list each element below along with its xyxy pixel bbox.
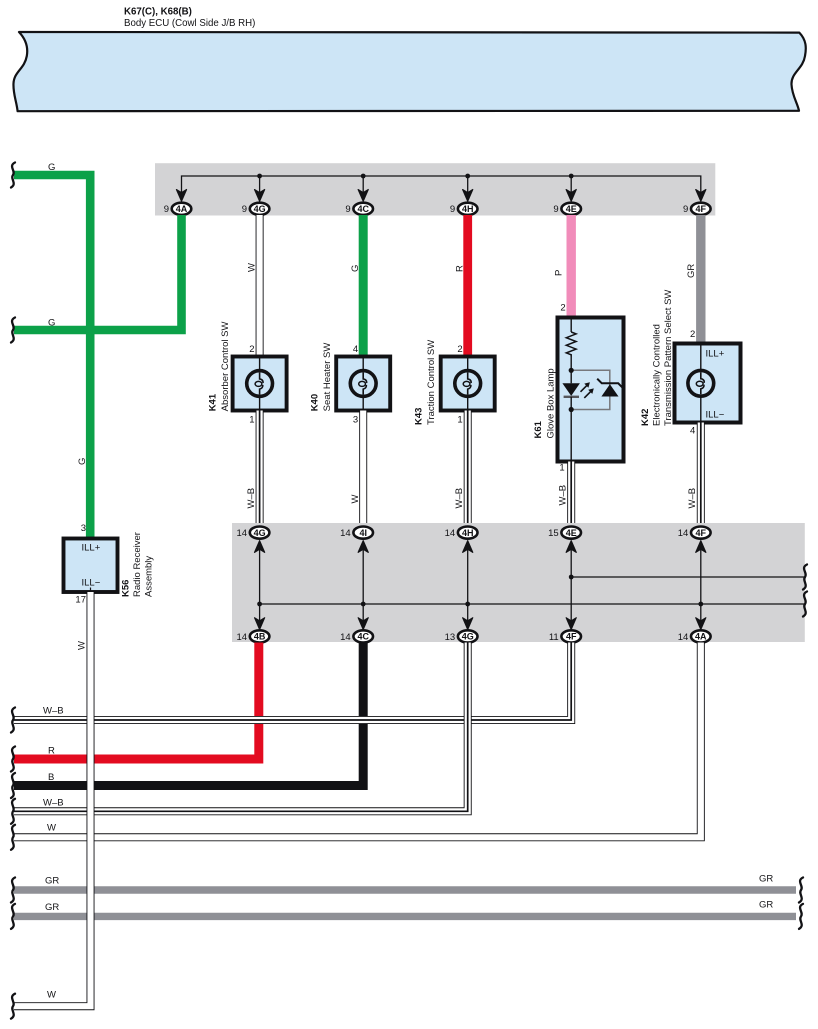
connector arrow into 4E (mid top row) — [566, 541, 576, 553]
svg-text:14: 14 — [678, 528, 689, 539]
svg-text:ILL−: ILL− — [82, 578, 101, 589]
radio receiver assembly K56 — [64, 539, 118, 593]
svg-text:4B: 4B — [254, 632, 266, 642]
svg-text:W: W — [77, 641, 88, 650]
svg-text:4: 4 — [690, 426, 695, 437]
junction dot top band col 4 — [569, 174, 574, 179]
lamp symbol in K43 — [455, 371, 481, 397]
connector oval 9 4C — [353, 203, 373, 215]
svg-text:K42: K42 — [640, 409, 651, 426]
wire W from K40 to 4I — [359, 411, 367, 528]
svg-text:1: 1 — [559, 463, 564, 474]
svg-text:Radio Receiver: Radio Receiver — [132, 532, 143, 597]
top band bus wire — [182, 176, 701, 195]
svg-text:4H: 4H — [462, 204, 474, 214]
svg-text:G: G — [350, 265, 361, 272]
svg-text:4C: 4C — [357, 204, 369, 214]
svg-text:9: 9 — [242, 204, 247, 215]
connector oval 14 4B — [250, 630, 270, 642]
connector oval 9 4A — [172, 203, 192, 215]
svg-text:W–B: W–B — [687, 488, 698, 509]
svg-text:9: 9 — [164, 204, 169, 215]
svg-text:Glove Box Lamp: Glove Box Lamp — [546, 368, 557, 438]
lamp symbol in K42 — [688, 370, 714, 396]
svg-text:4G: 4G — [254, 528, 266, 538]
connector arrow into 4E — [566, 190, 576, 202]
svg-text:2: 2 — [249, 344, 254, 355]
svg-text:K40: K40 — [310, 394, 321, 411]
svg-text:2: 2 — [560, 303, 565, 314]
svg-text:GR: GR — [686, 264, 697, 278]
connector oval 13 4G — [458, 630, 478, 642]
Body ECU banner (shield) — [13, 32, 805, 111]
svg-text:W–B: W–B — [43, 706, 64, 717]
junction dot top band col 1 — [257, 174, 262, 179]
connector oval 14 4A — [691, 630, 711, 642]
wire W from 4G to K41 — [256, 215, 264, 357]
svg-text:Traction Control SW: Traction Control SW — [426, 340, 437, 425]
svg-text:R: R — [454, 265, 465, 272]
connector arrow into 4G (mid bottom row) — [463, 618, 473, 630]
svg-text:4E: 4E — [566, 204, 577, 214]
connector arrow into 4A (mid bottom row) — [696, 618, 706, 630]
wire GR (lower) — [14, 913, 796, 920]
bus line to right (lower) — [260, 603, 804, 605]
wire W-B from K43 to 4H — [464, 411, 472, 528]
svg-text:14: 14 — [340, 528, 351, 539]
svg-text:K41: K41 — [208, 393, 219, 411]
svg-text:9: 9 — [683, 204, 688, 215]
svg-text:4G: 4G — [462, 632, 474, 642]
svg-text:ILL−: ILL− — [706, 410, 725, 421]
svg-text:2: 2 — [457, 344, 462, 355]
svg-text:GR: GR — [759, 900, 773, 911]
LED symbol in K61 — [562, 383, 580, 396]
wire W-B from 4G(13) to left — [14, 643, 468, 812]
switch K42 (Electronically Controlled Transmission Pattern Select SW) — [675, 344, 741, 423]
resistor inside K61 — [566, 332, 576, 357]
svg-text:W: W — [47, 990, 56, 1001]
wire G (top left) — [14, 175, 90, 539]
svg-text:GR: GR — [45, 902, 59, 913]
svg-text:K67(C), K68(B): K67(C), K68(B) — [124, 7, 192, 18]
junction dot below LED — [569, 407, 574, 412]
svg-text:W–B: W–B — [454, 488, 465, 509]
connector oval 9 4F — [691, 203, 711, 215]
wire W-B from K61 to 4E — [567, 462, 575, 528]
zener diode in K61 branch — [601, 384, 618, 396]
junction block band (top) — [155, 163, 715, 215]
bus line to right (upper) — [571, 576, 804, 578]
connector arrow into 4F — [696, 190, 706, 202]
svg-text:P: P — [554, 270, 565, 276]
svg-text:W: W — [246, 263, 257, 272]
svg-text:Assembly: Assembly — [143, 556, 154, 597]
connector arrow into 4C — [358, 190, 368, 202]
connector oval 14 4H — [458, 527, 478, 539]
wire GR (upper) — [14, 886, 796, 893]
svg-text:4H: 4H — [462, 528, 474, 538]
svg-text:GR: GR — [759, 874, 773, 885]
switch K41 (Absorber Control SW) — [233, 357, 287, 411]
wire G from 4C to K40 — [359, 215, 368, 357]
svg-text:17: 17 — [75, 595, 86, 606]
switch K40 (Seat Heater SW) — [336, 357, 390, 411]
svg-text:G: G — [77, 458, 88, 465]
wire W-B from 4F(11) to left — [14, 643, 571, 721]
svg-text:14: 14 — [678, 632, 689, 643]
wire R from 4B to left — [14, 643, 259, 760]
connector arrow into 4A — [176, 190, 186, 202]
wire R from 4H to K43 — [463, 215, 472, 357]
connector arrow into 4F (mid top row) — [696, 541, 706, 553]
wire W from K56 pin 17 down and to left — [14, 592, 91, 1006]
LED emission arrows — [581, 385, 588, 392]
svg-text:2: 2 — [690, 329, 695, 340]
lamp symbol in K40 — [350, 371, 376, 397]
svg-text:R: R — [48, 746, 55, 757]
junction block band (middle) — [232, 523, 805, 642]
connector oval 14 4I — [353, 527, 373, 539]
middle band bus wires — [259, 546, 261, 622]
svg-text:Electronically Controlled: Electronically Controlled — [652, 324, 663, 426]
svg-text:ILL+: ILL+ — [706, 349, 725, 360]
wire W-B from K42 to 4F — [697, 423, 705, 528]
svg-text:4C: 4C — [357, 632, 369, 642]
svg-text:14: 14 — [237, 528, 248, 539]
connector arrow into 4G (mid top row) — [255, 541, 265, 553]
connector oval 9 4H — [458, 203, 478, 215]
svg-text:G: G — [48, 318, 55, 329]
svg-text:1: 1 — [457, 414, 462, 425]
glove box lamp K61 — [558, 318, 624, 462]
connector oval 14 4C — [353, 630, 373, 642]
svg-text:4F: 4F — [566, 632, 577, 642]
connector oval 15 4E — [561, 527, 581, 539]
svg-text:1: 1 — [249, 414, 254, 425]
svg-text:W: W — [350, 495, 361, 504]
svg-text:4E: 4E — [566, 528, 577, 538]
wire G (second, from 4A) — [14, 215, 182, 330]
svg-text:4A: 4A — [176, 204, 188, 214]
svg-text:W–B: W–B — [557, 485, 568, 506]
svg-text:ILL+: ILL+ — [82, 543, 101, 554]
svg-text:W: W — [47, 823, 56, 834]
svg-text:4G: 4G — [254, 204, 266, 214]
wire GR from 4F to K42 — [696, 215, 705, 344]
svg-text:11: 11 — [549, 632, 559, 643]
svg-text:4I: 4I — [359, 528, 367, 538]
connector arrow into 4C (mid bottom row) — [358, 618, 368, 630]
svg-text:W–B: W–B — [43, 798, 64, 809]
svg-text:G: G — [48, 162, 55, 173]
svg-text:13: 13 — [445, 632, 456, 643]
connector arrow into 4I (mid top row) — [358, 541, 368, 553]
connector arrow into 4H — [463, 190, 473, 202]
svg-text:K43: K43 — [414, 408, 425, 425]
svg-text:4: 4 — [353, 344, 358, 355]
svg-text:4F: 4F — [696, 204, 707, 214]
svg-text:9: 9 — [345, 204, 350, 215]
connector arrow into 4G — [255, 190, 265, 202]
wire W from 4A(14) to left — [14, 643, 701, 838]
svg-text:4F: 4F — [696, 528, 707, 538]
connector oval 9 4G — [250, 203, 270, 215]
svg-text:Seat Heater SW: Seat Heater SW — [322, 343, 333, 412]
connector oval 14 4G — [250, 527, 270, 539]
svg-text:B: B — [48, 772, 54, 783]
svg-text:14: 14 — [445, 528, 456, 539]
connector oval 11 4F — [561, 630, 581, 642]
svg-text:15: 15 — [548, 528, 559, 539]
svg-text:14: 14 — [340, 632, 351, 643]
wire B from 4C to left — [14, 643, 363, 786]
branch wiring (gray) around LED/zener — [571, 370, 610, 409]
connector oval 9 4E — [561, 203, 581, 215]
connector arrow into 4F (mid bottom row) — [566, 618, 576, 630]
svg-text:GR: GR — [45, 876, 59, 887]
switch K43 (Traction Control SW) — [441, 357, 495, 411]
connector arrow into 4H (mid top row) — [463, 541, 473, 553]
svg-text:9: 9 — [553, 204, 558, 215]
junction dot top band col 2 — [361, 174, 366, 179]
connector arrow into 4B (mid bottom row) — [255, 618, 265, 630]
svg-text:Body ECU (Cowl Side J/B RH): Body ECU (Cowl Side J/B RH) — [124, 18, 255, 29]
svg-text:3: 3 — [81, 523, 86, 534]
svg-text:9: 9 — [450, 204, 455, 215]
svg-text:3: 3 — [353, 414, 358, 425]
wire P from 4E to K61 — [567, 215, 576, 318]
svg-text:W–B: W–B — [246, 488, 257, 509]
connector oval 14 4F — [691, 527, 711, 539]
svg-text:4A: 4A — [695, 632, 707, 642]
svg-text:14: 14 — [237, 632, 248, 643]
svg-text:K61: K61 — [533, 420, 544, 438]
lamp symbol in K41 — [247, 371, 273, 397]
junction dot top band col 3 — [465, 174, 470, 179]
wire W-B from K41 to 4G — [256, 411, 264, 528]
svg-text:Transmission Pattern Select SW: Transmission Pattern Select SW — [663, 290, 674, 426]
junction dot above LED — [569, 368, 574, 373]
svg-text:Absorber Control SW: Absorber Control SW — [220, 322, 231, 412]
svg-text:K56: K56 — [121, 580, 132, 597]
